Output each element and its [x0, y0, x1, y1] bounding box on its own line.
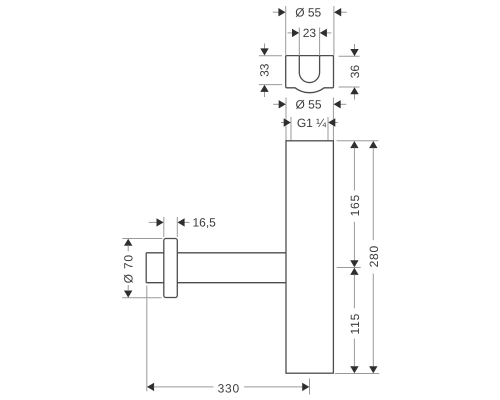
- wall flange side view (on pipe): [164, 239, 178, 298]
- dimension G 1 1/4 extension lines: [291, 117, 328, 141]
- dimension 23 arrows and stems: [288, 29, 332, 37]
- dimension 36 arrows and stems: [350, 44, 358, 100]
- dimension 16,5 arrows and stems: [149, 218, 190, 226]
- wall flange front view (top): [286, 56, 334, 93]
- horizontal inlet pipe: [146, 253, 286, 283]
- svg-text:16,5: 16,5: [193, 216, 217, 230]
- U-shaped cutout in wall flange: [299, 56, 319, 83]
- svg-text:330: 330: [218, 382, 240, 396]
- dimension 115 arrows and line: [350, 268, 358, 374]
- svg-text:36: 36: [348, 65, 362, 79]
- dimension 36 (right of flange) extension lines: [339, 56, 360, 87]
- dimension 16,5 extension lines: [164, 217, 178, 237]
- svg-text:Ø 55: Ø 55: [295, 98, 321, 112]
- dimension Ø 55 (second row) arrows and stems: [273, 100, 346, 108]
- dimension Ø 55 (top row) extension lines: [286, 6, 334, 56]
- right side bottom extension line: [335, 373, 379, 375]
- dimension 23 extension lines: [299, 28, 319, 56]
- dimension 330 extension lines: [147, 286, 310, 395]
- svg-text:115: 115: [348, 313, 362, 335]
- dimension 165 arrows and line: [350, 141, 358, 267]
- dimension Ø 70 extension lines: [122, 239, 162, 298]
- svg-text:Ø 55: Ø 55: [295, 6, 321, 20]
- dimension Ø 70 arrows and stems: [124, 239, 132, 298]
- right side middle tick (pipe axis): [337, 267, 361, 269]
- dimension 280 arrows and line: [369, 141, 377, 373]
- dimension 33 (left of flange) extension lines: [259, 56, 282, 85]
- svg-text:165: 165: [348, 194, 362, 216]
- dimension 330 arrows and line: [147, 383, 309, 391]
- dimension Ø 55 (second row) extension lines: [286, 98, 333, 141]
- svg-text:Ø 70: Ø 70: [122, 254, 136, 283]
- svg-text:280: 280: [367, 245, 381, 267]
- svg-text:G1 ¼: G1 ¼: [297, 116, 327, 130]
- main cylinder body: [286, 141, 333, 373]
- dimension 33 arrows and stems: [260, 44, 268, 98]
- svg-text:33: 33: [257, 63, 271, 77]
- svg-text:23: 23: [303, 26, 317, 40]
- dimension G 1 1/4 arrows and stems: [281, 118, 338, 126]
- right side top extension line: [337, 140, 379, 142]
- dimension Ø 55 (top row) arrows and stems: [273, 8, 347, 16]
